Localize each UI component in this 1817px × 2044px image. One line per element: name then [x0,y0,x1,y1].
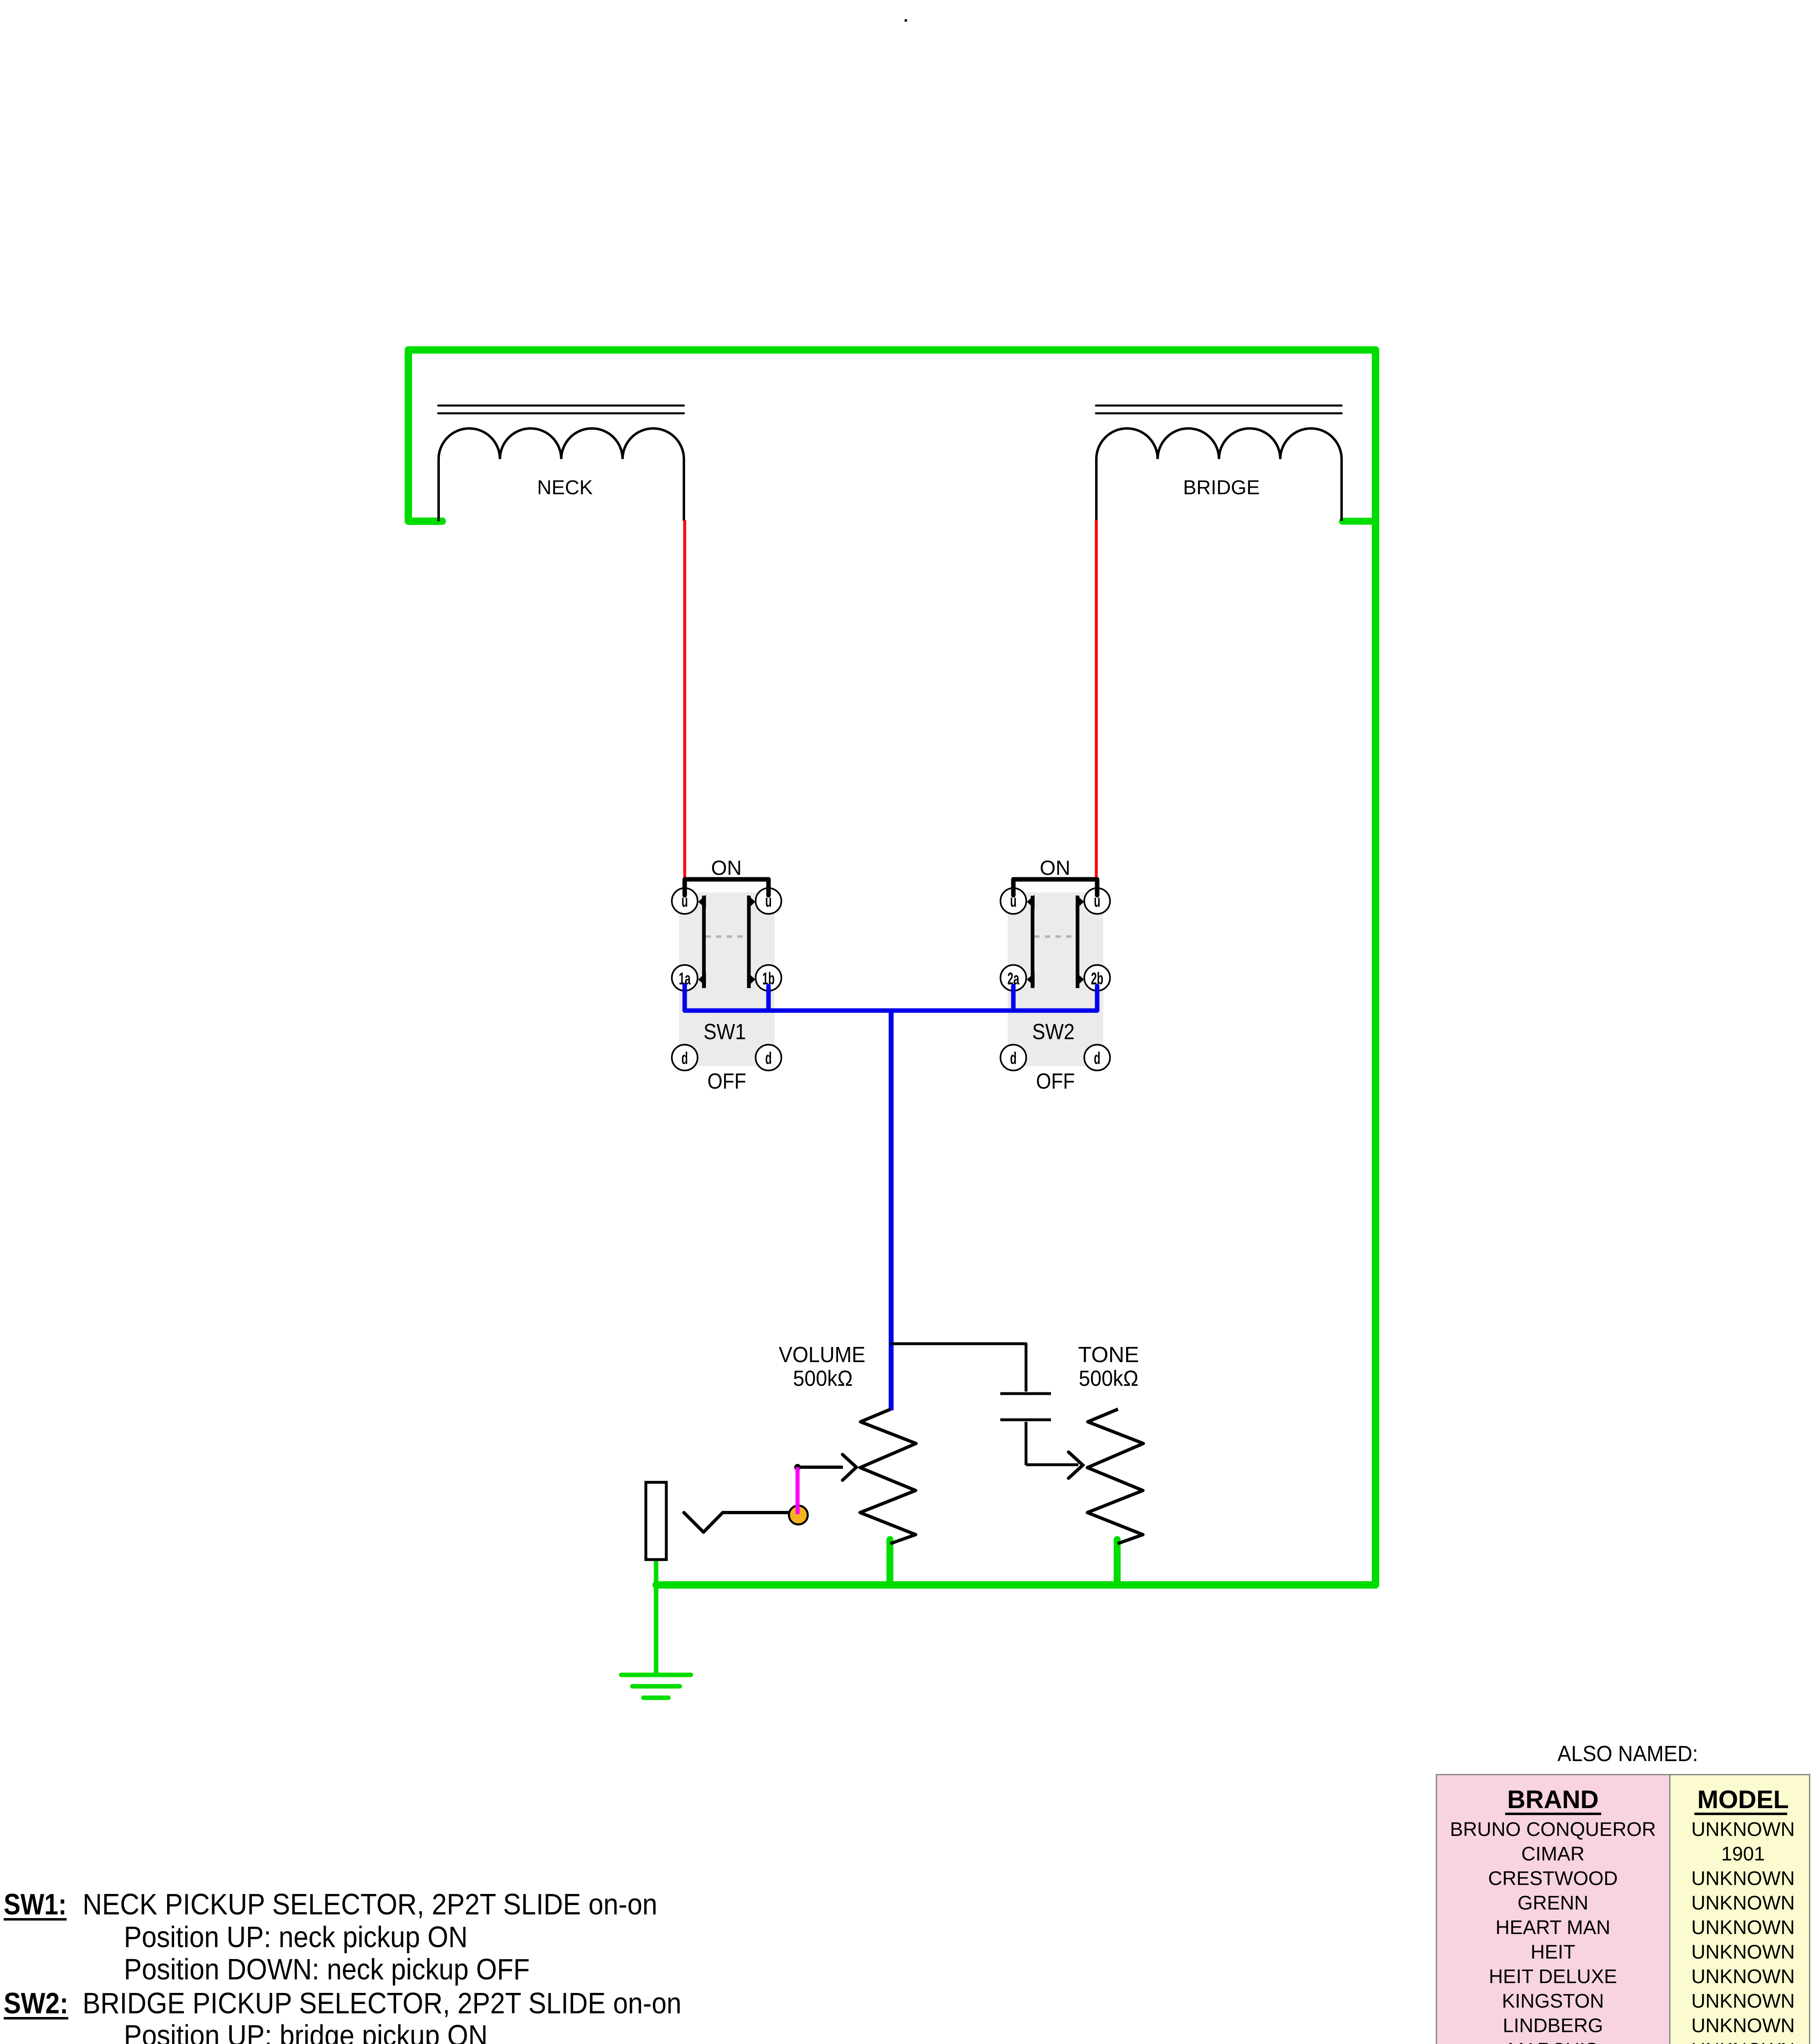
svg-text:UNKNOWN: UNKNOWN [1691,1990,1795,2012]
output jack tip contact [684,1513,789,1532]
wire blue 2a stub [1011,986,1016,1011]
output jack sleeve [646,1482,666,1560]
potentiometer TONE 500k [1087,1409,1143,1544]
svg-text:OFF: OFF [708,1069,746,1094]
wire red neck to SW1 [683,520,686,878]
switch SW1 pole a [702,896,706,988]
wire magenta jack to volume wiper [795,1467,800,1514]
switch SW2 body [1008,892,1103,1066]
switch SW1 pole b [747,896,751,988]
jack tip terminal [789,1506,808,1524]
svg-text:MARCHIS: MARCHIS [1508,2040,1598,2044]
svg-text:BRIDGE PICKUP SELECTOR, 2P2T S: BRIDGE PICKUP SELECTOR, 2P2T SLIDE on-on [83,1987,681,2020]
svg-text:TONE: TONE [1078,1342,1139,1367]
switch SW1 actuator dashed line [706,935,746,938]
svg-text:UNKNOWN: UNKNOWN [1691,1892,1795,1914]
svg-text:UNKNOWN: UNKNOWN [1691,1819,1795,1840]
switch SW1 body [679,892,775,1066]
svg-text:NECK: NECK [537,477,593,499]
table model column [1670,1775,1810,2044]
potentiometer VOLUME 500k [860,1409,916,1544]
svg-text:SW2:: SW2: [4,1987,68,2020]
svg-text:BRIDGE: BRIDGE [1183,477,1260,499]
svg-text:d: d [1094,1049,1100,1068]
svg-text:UNKNOWN: UNKNOWN [1691,1941,1795,1963]
switch SW2 [1001,856,1110,1094]
switch SW1 terminals d [672,1045,698,1071]
svg-text:LINDBERG: LINDBERG [1503,2015,1603,2037]
switch SW1 terminals u [672,888,698,914]
svg-text:ON: ON [711,856,742,879]
svg-text:500kΩ: 500kΩ [793,1366,853,1391]
volume wiper arrow [798,1466,843,1469]
svg-text:d: d [765,1049,772,1068]
table brand column [1436,1775,1670,2044]
svg-text:Position UP: bridge pickup ON: Position UP: bridge pickup ON [124,2019,488,2044]
svg-text:u: u [1094,892,1100,911]
svg-text:u: u [1010,892,1017,911]
svg-text:Position DOWN: neck pickup OFF: Position DOWN: neck pickup OFF [124,1953,530,1986]
switch SW2 pole a [1031,896,1035,988]
svg-text:NECK PICKUP SELECTOR, 2P2T SLI: NECK PICKUP SELECTOR, 2P2T SLIDE on-on [83,1888,657,1921]
wire blue bus [685,985,1097,1011]
pickup BRIDGE core lines [1096,405,1342,407]
svg-text:BRUNO CONQUEROR: BRUNO CONQUEROR [1450,1819,1656,1840]
svg-text:1901: 1901 [1721,1843,1765,1865]
svg-text:SW1: SW1 [703,1020,746,1044]
svg-text:VOLUME: VOLUME [779,1342,865,1367]
stray dot [905,19,907,22]
switch SW1 terminals 1a 1b [672,965,698,991]
svg-text:UNKNOWN: UNKNOWN [1691,2015,1795,2037]
pickup NECK core lines [438,405,684,407]
svg-text:UNKNOWN: UNKNOWN [1691,1966,1795,1988]
wire green jack to ground [654,1558,659,1675]
tone wiper arrow [1069,1452,1083,1478]
wire red bridge to SW2 [1095,520,1098,878]
svg-text:CIMAR: CIMAR [1521,1843,1585,1865]
svg-text:Position UP: neck pickup ON: Position UP: neck pickup ON [124,1921,468,1954]
switch SW1 ON bracket [685,879,768,895]
svg-text:ALSO NAMED:: ALSO NAMED: [1557,1741,1698,1766]
switch SW2 actuator dashed line [1034,935,1075,938]
svg-text:KINGSTON: KINGSTON [1502,1990,1604,2012]
inductor NECK coil [439,428,684,521]
svg-text:UNKNOWN: UNKNOWN [1691,1917,1795,1939]
svg-text:MODEL: MODEL [1697,1786,1789,1814]
svg-text:HEIT: HEIT [1530,1941,1575,1963]
wire blue bus to volume [889,1011,894,1410]
svg-text:500kΩ: 500kΩ [1079,1366,1138,1391]
wire green volume stub [887,1540,894,1585]
switch SW1 [672,856,782,1094]
wire green bridge stub [1342,518,1376,525]
ground [621,1675,691,1698]
svg-text:SW1:: SW1: [4,1888,67,1921]
svg-text:GRENN: GRENN [1517,1892,1588,1914]
svg-text:HEART MAN: HEART MAN [1496,1917,1611,1939]
wire blue 1b stub [766,986,771,1011]
svg-text:UNKNOWN: UNKNOWN [1691,2040,1795,2044]
svg-text:SW2: SW2 [1032,1020,1075,1044]
wire volume top to capacitor [892,1342,1026,1345]
svg-text:OFF: OFF [1036,1069,1075,1094]
switch SW2 terminals d [1001,1045,1026,1071]
svg-text:d: d [681,1049,688,1068]
inductor BRIDGE coil [1096,428,1342,521]
svg-text:u: u [681,892,688,911]
switch SW2 terminals u [1001,888,1026,914]
svg-text:UNKNOWN: UNKNOWN [1691,1868,1795,1889]
switch SW2 pole b [1076,896,1080,988]
switch SW2 ON bracket [1013,879,1097,895]
capacitor C1 [1000,1344,1078,1465]
wire green tone stub [1114,1540,1121,1585]
svg-text:BRAND: BRAND [1507,1786,1599,1814]
svg-text:d: d [1010,1049,1017,1068]
ground wire loop (green) [408,350,1376,1585]
svg-text:CRESTWOOD: CRESTWOOD [1488,1868,1618,1889]
svg-text:ON: ON [1040,856,1071,879]
svg-text:HEIT DELUXE: HEIT DELUXE [1489,1966,1617,1988]
junction dot volume wiper [794,1464,801,1470]
svg-text:u: u [765,892,772,911]
switch SW2 terminals 2a 2b [1001,965,1026,991]
